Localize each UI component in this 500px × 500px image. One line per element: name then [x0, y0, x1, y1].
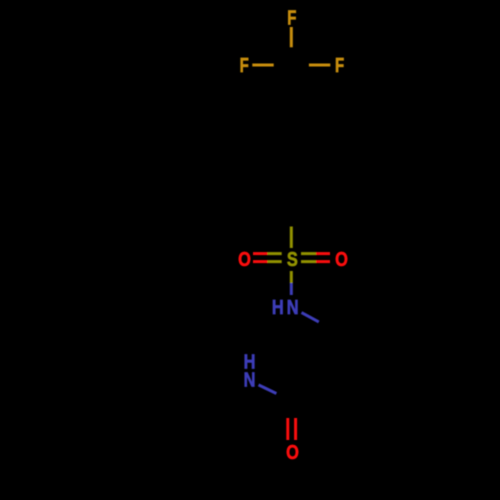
svg-text:N: N — [287, 295, 299, 318]
svg-text:F: F — [240, 54, 249, 77]
svg-text:O: O — [286, 440, 299, 463]
svg-text:F: F — [335, 54, 344, 77]
svg-text:H: H — [272, 295, 284, 318]
svg-text:S: S — [287, 247, 298, 270]
svg-text:F: F — [287, 6, 296, 29]
svg-text:O: O — [238, 247, 251, 270]
svg-text:N: N — [244, 368, 256, 391]
svg-text:O: O — [335, 247, 348, 270]
